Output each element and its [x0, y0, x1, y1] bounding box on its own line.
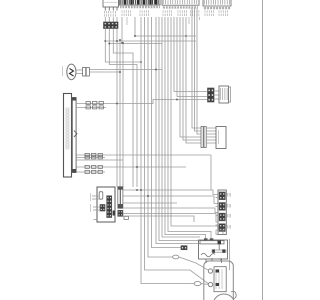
fuse box wires y155 group [76, 153, 211, 190]
connector J2 top right with pins [203, 0, 231, 9]
ECU connector J1 left section with pins [119, 0, 160, 8]
battery with terminals [204, 261, 234, 300]
fuse box wires y167 group [76, 160, 186, 173]
page edge line [262, 0, 264, 300]
starter relay [199, 238, 230, 270]
wires junction block to relay connector stack [123, 189, 218, 222]
wire bundle D from ECU down to battery and relay [141, 17, 209, 284]
stacked connector bottom label [216, 230, 223, 235]
strip arrow symbol [74, 131, 77, 137]
wires from module to connector C1 [104, 11, 117, 22]
diode unit with connector [208, 86, 231, 103]
fuse box tall with connector strip [64, 94, 77, 178]
ECU wires group 1 with horizontal bus y33 [121, 17, 196, 44]
CDI unit connector assembly [201, 127, 226, 149]
wire bundle F from ECU right section [168, 17, 219, 241]
wire bundle G from connector J2 to CDI connector [192, 8, 201, 134]
ring terminal [173, 255, 179, 259]
starter motor (cut off at bottom) [212, 258, 236, 300]
junction block with internal connectors [91, 187, 116, 222]
wire color code labels under connectors [122, 10, 227, 16]
main fuse [194, 282, 201, 286]
bus wires y40 y43 with droppers x120 x123 [105, 39, 196, 187]
sensor wires to harness [90, 69, 163, 74]
inline connector on relay wire [181, 246, 187, 250]
speed sensor M with connector [63, 64, 90, 80]
ignition control module box top-left with 4 pins [103, 0, 119, 11]
ECU connector J1 right section with pins [162, 0, 199, 9]
relay/flasher stacked connectors [216, 190, 231, 235]
fuse box wires top group [76, 99, 207, 109]
wires from C1 down to junction block [104, 29, 142, 188]
junction block side connectors [118, 187, 129, 220]
connector C1 (4-pin, dark) [104, 22, 119, 29]
battery cables [179, 257, 209, 284]
wire bundle E from ECU down to starter relay [156, 17, 206, 244]
